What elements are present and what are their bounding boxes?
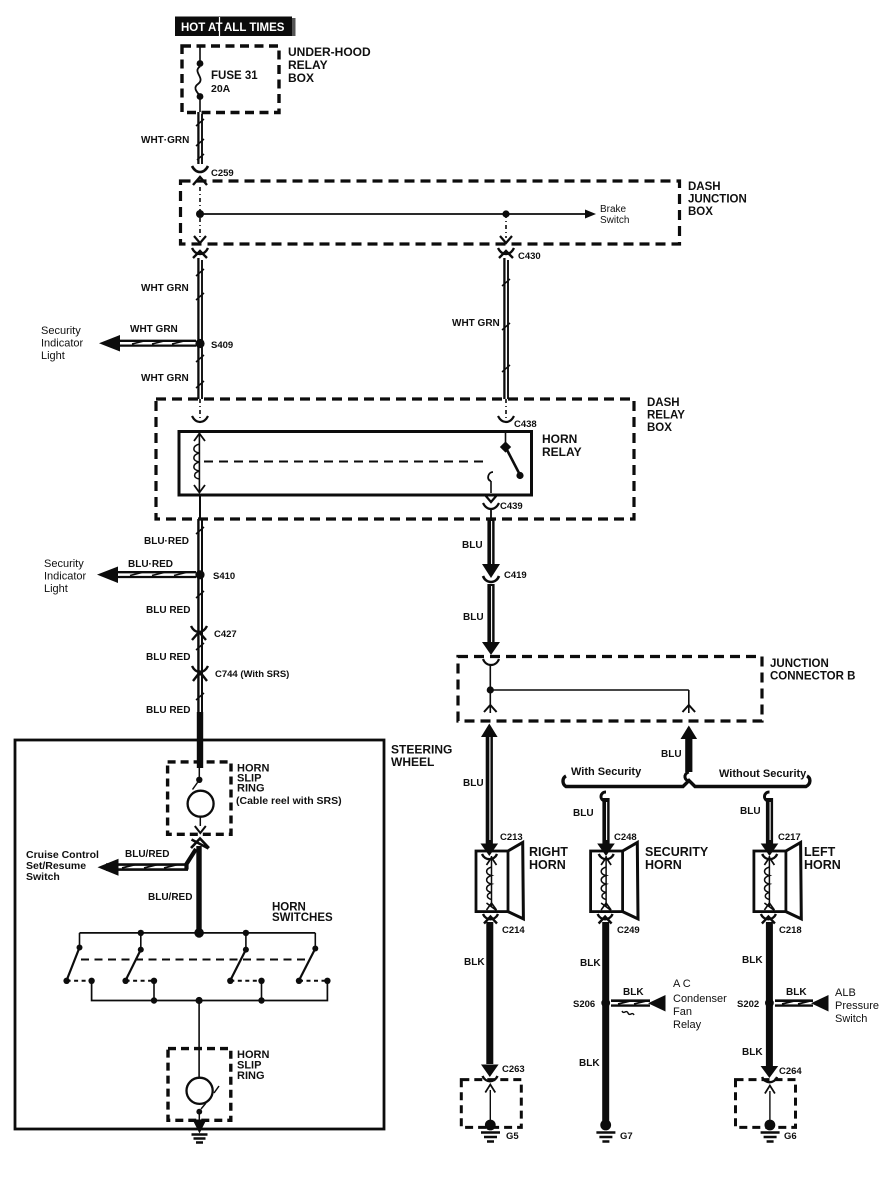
connector C217 — [761, 844, 779, 860]
switch 3 — [227, 933, 265, 984]
svg-text:WHT GRN: WHT GRN — [141, 373, 189, 384]
connector below slip ring 1 — [191, 839, 209, 849]
svg-text:C248: C248 — [614, 832, 637, 843]
splice S410 — [195, 570, 204, 579]
ground G5 internal wire arrow — [485, 1085, 495, 1124]
ground G7 — [596, 1120, 615, 1142]
wire WHT-GRN right column C430 to relay box — [502, 258, 510, 399]
svg-text:C264: C264 — [779, 1066, 802, 1077]
ALB pressure switch label — [835, 987, 879, 1025]
switch 1 — [63, 933, 94, 984]
arrow to security indicator light (middle) — [97, 567, 196, 584]
svg-text:BLK: BLK — [742, 955, 763, 966]
svg-text:BLK: BLK — [580, 958, 601, 969]
connector C427 — [191, 626, 207, 640]
wire dash-dot inside junction box — [199, 187, 201, 212]
svg-text:Condenser: Condenser — [673, 993, 727, 1005]
svg-text:BLU: BLU — [661, 749, 682, 760]
svg-text:HOT AT: HOT AT — [181, 22, 223, 34]
svg-text:BOX: BOX — [288, 71, 314, 85]
connector entry fork in junction B — [483, 659, 499, 665]
wire WHT-GRN left column C259 to relay box — [196, 258, 204, 399]
connector C259 lower mate — [192, 248, 208, 258]
svg-text:LEFT: LEFT — [804, 845, 836, 859]
svg-text:WHT GRN: WHT GRN — [130, 324, 178, 335]
svg-text:UNDER-HOOD: UNDER-HOOD — [288, 45, 371, 59]
svg-text:C744 (With SRS): C744 (With SRS) — [215, 669, 289, 680]
svg-text:BLU: BLU — [462, 540, 483, 551]
svg-text:BLU·RED: BLU·RED — [144, 536, 189, 547]
svg-text:G5: G5 — [506, 1131, 519, 1142]
connector C218 — [761, 914, 776, 924]
connector C744 — [192, 666, 208, 681]
svg-text:C249: C249 — [617, 925, 640, 936]
svg-text:ALL TIMES: ALL TIMES — [224, 22, 285, 34]
connector C419 — [482, 564, 500, 582]
ground G6 internal wire arrow — [765, 1086, 775, 1124]
svg-text:Indicator: Indicator — [44, 571, 87, 583]
wire right into horn relay — [505, 399, 507, 418]
node bottom rail right — [258, 997, 264, 1003]
fuse 31 top lead wire — [199, 46, 201, 63]
svg-text:Security: Security — [44, 558, 84, 570]
svg-text:BLU/RED: BLU/RED — [125, 849, 169, 860]
wire inside junction B vertical — [489, 665, 491, 713]
svg-text:G6: G6 — [784, 1131, 797, 1142]
horn slip ring 1 label — [236, 763, 342, 808]
svg-text:Switch: Switch — [835, 1013, 867, 1025]
under-hood relay box — [182, 46, 279, 113]
wire WHT-GRN fuse box to C259 — [196, 112, 204, 164]
svg-text:Switch: Switch — [600, 215, 629, 226]
fuse 31 — [195, 60, 203, 112]
svg-text:BLU: BLU — [463, 612, 484, 623]
svg-text:Light: Light — [44, 583, 68, 595]
dash relay box label — [647, 397, 685, 434]
connector C263 — [481, 1065, 499, 1082]
dash junction box label — [688, 181, 747, 218]
wire inside junction B right vertical — [688, 690, 690, 713]
security horn — [591, 843, 638, 919]
svg-text:BLU RED: BLU RED — [146, 605, 190, 616]
wire left exit of junction box — [199, 218, 201, 238]
svg-text:C438: C438 — [514, 419, 537, 430]
arrow to ALB pressure switch — [775, 995, 829, 1012]
svg-text:Without Security: Without Security — [719, 768, 807, 780]
fuse 31 value label — [211, 70, 258, 95]
node junction at brake feed — [196, 210, 204, 218]
right horn label — [529, 845, 568, 872]
node junction to C430 — [502, 210, 509, 217]
svg-text:RIGHT: RIGHT — [529, 845, 568, 859]
svg-text:HORN: HORN — [529, 858, 566, 872]
node top rail right — [243, 930, 249, 936]
arrow to A/C condenser fan relay — [611, 995, 666, 1015]
svg-text:G7: G7 — [620, 1131, 633, 1142]
wire left exit relay box — [199, 495, 201, 519]
svg-text:WHEEL: WHEEL — [391, 755, 434, 769]
connector C248 — [597, 844, 615, 860]
wire BLU/RED slip ring to horn switches — [196, 846, 201, 931]
dash junction box — [181, 181, 680, 244]
junction connector B box — [458, 657, 762, 722]
svg-text:DASH: DASH — [688, 181, 721, 193]
connector C430 — [498, 236, 514, 258]
horn slip ring 2 label — [237, 1049, 269, 1082]
svg-text:BLU/RED: BLU/RED — [148, 892, 192, 903]
wire BLU heavy junction B to C213 — [481, 724, 498, 845]
svg-text:S409: S409 — [211, 340, 233, 351]
svg-text:C263: C263 — [502, 1064, 525, 1075]
svg-text:C419: C419 — [504, 570, 527, 581]
svg-text:BOX: BOX — [688, 206, 713, 218]
svg-text:BLU·RED: BLU·RED — [128, 559, 173, 570]
horn switches bottom rail — [92, 981, 328, 1001]
splice S206 — [601, 999, 610, 1008]
svg-text:BLU RED: BLU RED — [146, 652, 190, 663]
dash relay box — [156, 399, 634, 519]
svg-text:Brake: Brake — [600, 204, 627, 215]
svg-text:HORN: HORN — [542, 432, 577, 446]
power label HOT AT ALL TIMES — [175, 17, 296, 37]
svg-text:C218: C218 — [779, 925, 802, 936]
wire inside junction B horizontal — [490, 689, 689, 691]
ground steering wheel — [192, 1120, 208, 1143]
svg-text:RING: RING — [237, 783, 265, 795]
ground G5 dashed box — [461, 1080, 521, 1128]
node bottom rail left — [151, 997, 157, 1003]
svg-text:C427: C427 — [214, 629, 237, 640]
connector fork left at relay — [192, 416, 208, 422]
ground G6 — [761, 1120, 780, 1142]
steering wheel label — [391, 743, 452, 770]
wire left into horn relay — [199, 399, 201, 418]
svg-text:RING: RING — [237, 1070, 265, 1082]
svg-text:WHT GRN: WHT GRN — [141, 283, 189, 294]
svg-text:BLK: BLK — [786, 987, 807, 998]
horn relay box — [179, 432, 532, 496]
svg-text:JUNCTION: JUNCTION — [688, 194, 747, 206]
security horn label — [645, 845, 709, 872]
svg-text:Security: Security — [41, 325, 81, 337]
svg-text:A C: A C — [673, 978, 691, 990]
svg-text:C430: C430 — [518, 251, 541, 262]
svg-text:HORN: HORN — [804, 858, 841, 872]
wire BLU heavy bracket to C248 — [601, 792, 607, 844]
node top rail left — [138, 930, 144, 936]
wire BLU heavy bracket to C217 — [764, 792, 770, 844]
svg-text:DASH: DASH — [647, 397, 680, 409]
horn slip ring 1 internals — [188, 768, 214, 833]
svg-text:BLK: BLK — [464, 957, 485, 968]
connector exit fork left — [194, 236, 206, 243]
under-hood relay box label — [288, 45, 371, 85]
switch 4 — [296, 933, 331, 984]
svg-text:S202: S202 — [737, 999, 759, 1010]
connector C249 — [598, 914, 613, 924]
wire BLK security horn upper — [602, 922, 609, 1122]
horn relay linkage dashed line — [204, 461, 487, 463]
svg-text:SECURITY: SECURITY — [645, 845, 709, 859]
svg-text:Switch: Switch — [26, 871, 60, 883]
svg-text:RELAY: RELAY — [542, 445, 582, 459]
svg-text:SWITCHES: SWITCHES — [272, 912, 333, 924]
wire BLK right horn to C263 — [486, 922, 493, 1064]
wire right exit relay box — [490, 509, 492, 519]
horn switches label — [272, 902, 333, 925]
svg-text:RELAY: RELAY — [647, 410, 685, 422]
security indicator light label (middle) — [44, 558, 87, 595]
svg-text:JUNCTION: JUNCTION — [770, 658, 829, 670]
svg-text:C217: C217 — [778, 832, 801, 843]
arrow to security indicator light (top) — [99, 335, 196, 352]
svg-text:C213: C213 — [500, 832, 523, 843]
connector C259 — [192, 166, 208, 185]
svg-text:BLU: BLU — [463, 778, 484, 789]
svg-text:RELAY: RELAY — [288, 58, 328, 72]
wire BLU-RED left column relay to steering wheel — [196, 519, 204, 714]
svg-text:BLU: BLU — [573, 808, 594, 819]
horn slip ring 1 box — [168, 762, 231, 834]
A/C condenser fan relay label — [673, 978, 727, 1031]
brake switch label — [600, 204, 629, 226]
svg-text:BLK: BLK — [579, 1058, 600, 1069]
connector exit fork left — [484, 705, 497, 712]
svg-text:Indicator: Indicator — [41, 338, 84, 350]
horn slip ring 2 internals — [187, 1078, 220, 1120]
horn slip ring 2 box — [168, 1049, 231, 1121]
svg-text:S410: S410 — [213, 571, 235, 582]
wire thick into steering wheel — [197, 712, 203, 768]
wire BLU heavy junction B to bracket — [681, 726, 698, 782]
svg-text:Pressure: Pressure — [835, 1000, 879, 1012]
svg-text:ALB: ALB — [835, 987, 856, 999]
connector C439 below relay — [483, 495, 499, 509]
left horn label — [804, 845, 841, 872]
svg-text:C214: C214 — [502, 925, 525, 936]
switch linkage dashed line — [81, 959, 306, 961]
horn relay label — [542, 432, 582, 459]
svg-text:BLU: BLU — [740, 806, 761, 817]
connector C213 — [481, 844, 499, 860]
svg-text:CONNECTOR B: CONNECTOR B — [770, 671, 855, 683]
wire BLU heavy C419 to junction connector B — [482, 584, 500, 655]
wire BLK left horn upper — [766, 922, 773, 1066]
svg-text:BLK: BLK — [623, 987, 644, 998]
connector C264 — [761, 1066, 779, 1082]
arrow to cruise control switch — [98, 849, 197, 876]
svg-text:20A: 20A — [211, 83, 231, 95]
wire junction down to C430 — [505, 214, 507, 238]
svg-text:Fan: Fan — [673, 1006, 692, 1018]
splice S202 — [765, 999, 774, 1008]
cruise control switch label — [26, 849, 99, 883]
node junction B — [487, 686, 494, 693]
switch 2 — [122, 933, 157, 984]
svg-text:S206: S206 — [573, 999, 595, 1010]
svg-text:BOX: BOX — [647, 422, 672, 434]
alternative-wiring bracket — [563, 776, 810, 787]
security indicator light label (top) — [41, 325, 84, 362]
svg-text:BLU RED: BLU RED — [146, 705, 190, 716]
svg-text:Relay: Relay — [673, 1019, 702, 1031]
svg-text:HORN: HORN — [645, 858, 682, 872]
wire horn switches to slip ring 2 — [198, 1001, 200, 1079]
node top rail center — [194, 928, 204, 938]
node bottom rail center — [196, 997, 203, 1004]
svg-text:WHT·GRN: WHT·GRN — [141, 135, 189, 146]
svg-text:FUSE 31: FUSE 31 — [211, 70, 258, 82]
right horn — [476, 843, 523, 919]
splice S409 — [195, 339, 204, 348]
svg-text:(Cable reel with SRS): (Cable reel with SRS) — [236, 795, 342, 807]
connector C438 — [498, 416, 514, 422]
svg-text:C259: C259 — [211, 168, 234, 179]
connector exit fork right — [683, 705, 696, 712]
connector C214 — [483, 914, 498, 924]
svg-text:WHT GRN: WHT GRN — [452, 318, 500, 329]
ground G5 — [481, 1120, 500, 1142]
junction connector B label — [770, 658, 855, 683]
horn relay coil — [194, 433, 205, 493]
svg-text:Light: Light — [41, 350, 65, 362]
wire BLU heavy relay box to C419 — [487, 519, 495, 566]
wire to brake switch — [200, 210, 596, 219]
svg-text:C439: C439 — [500, 501, 523, 512]
svg-text:With Security: With Security — [571, 766, 642, 778]
ground G6 dashed box — [736, 1080, 796, 1128]
svg-text:BLK: BLK — [742, 1047, 763, 1058]
steering wheel box — [15, 740, 384, 1129]
horn switches top rail — [80, 932, 316, 934]
horn relay contact blade — [488, 433, 523, 493]
left horn — [754, 843, 801, 919]
